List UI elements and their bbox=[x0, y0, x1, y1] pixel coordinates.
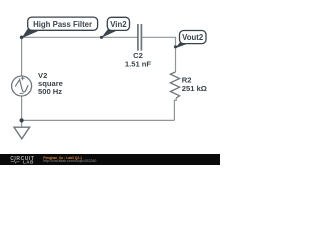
node dot Vout2 attach bbox=[174, 45, 177, 48]
svg-text:High Pass Filter: High Pass Filter bbox=[33, 20, 92, 29]
wire: R2 bottom lead with jog bbox=[174, 98, 176, 120]
wire: V2 bottom to ground junction bbox=[21, 96, 23, 121]
svg-text:LAB: LAB bbox=[23, 160, 34, 165]
svg-text:1.51 nF: 1.51 nF bbox=[125, 59, 152, 68]
V2 plus sign bbox=[21, 76, 25, 80]
svg-text:500 Hz: 500 Hz bbox=[38, 87, 62, 96]
flag Vout2 pointer bbox=[175, 42, 190, 49]
svg-text:Vin2: Vin2 bbox=[110, 20, 127, 29]
resistor R2 zigzag bbox=[170, 72, 179, 98]
footer black bar bbox=[0, 154, 220, 165]
voltage source V2 circle bbox=[12, 76, 32, 96]
capacitor C2 plates bbox=[138, 24, 142, 51]
wire: left vertical from top corner to V2 top bbox=[21, 37, 23, 77]
svg-text:Vout2: Vout2 bbox=[182, 33, 204, 42]
svg-text:251 kΩ: 251 kΩ bbox=[182, 84, 207, 93]
svg-text:http://circuitlab.com/c4q5u352: http://circuitlab.com/c4q5u352280 bbox=[43, 159, 96, 163]
ground symbol bbox=[14, 127, 30, 139]
wire: top right horizontal + right vertical down to R2 bbox=[142, 37, 176, 72]
flag Vout2 box bbox=[180, 31, 207, 44]
junction dot at ground node bbox=[20, 118, 24, 122]
flag High Pass Filter box bbox=[28, 17, 98, 30]
V2 waveform glyph bbox=[15, 80, 28, 92]
wire: ground stem bbox=[21, 120, 23, 127]
node dot top-left corner bbox=[20, 36, 24, 40]
wire: top left horizontal (node Vin2) bbox=[22, 36, 138, 38]
wire: bottom horizontal return bbox=[22, 119, 175, 121]
flag Vin2 pointer bbox=[101, 29, 119, 38]
V2 minus sign bbox=[20, 92, 24, 94]
flag High Pass Filter pointer bbox=[22, 29, 42, 39]
flag Vin2 box bbox=[107, 17, 129, 30]
node dot Vin2 attach bbox=[100, 36, 103, 39]
